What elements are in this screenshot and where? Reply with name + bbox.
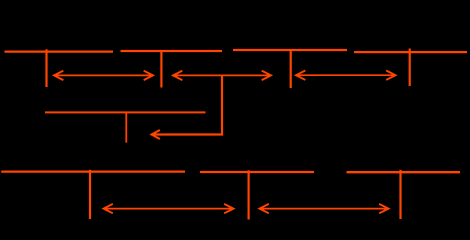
node tick B1 — [89, 170, 91, 219]
node tick B2 — [248, 170, 250, 219]
wire top timeline segment 2 — [121, 50, 223, 52]
node tick T1 — [45, 49, 47, 87]
wire top timeline segment 3 — [233, 49, 347, 51]
dimension arrow A5 — [260, 204, 389, 213]
node tick T4 — [409, 49, 411, 87]
node tick T3 — [290, 49, 292, 88]
wire elbow connector with left arrow — [152, 75, 223, 138]
dimension arrow A2 — [173, 71, 271, 80]
dimension arrow A1 — [54, 71, 153, 80]
dimension arrow A3 — [296, 71, 396, 80]
node tick T2 — [160, 50, 162, 88]
wire bottom timeline segment 2 — [200, 171, 314, 173]
dimension arrow A4 — [104, 204, 234, 213]
wire bottom timeline segment 3 — [347, 171, 461, 173]
node tick B3 — [399, 170, 401, 219]
wire top timeline segment 1 — [5, 50, 114, 52]
wire bottom timeline segment 1 — [1, 170, 185, 172]
node middle tick — [125, 112, 127, 143]
wire top timeline segment 4 — [354, 51, 467, 53]
wire middle line — [45, 111, 206, 113]
